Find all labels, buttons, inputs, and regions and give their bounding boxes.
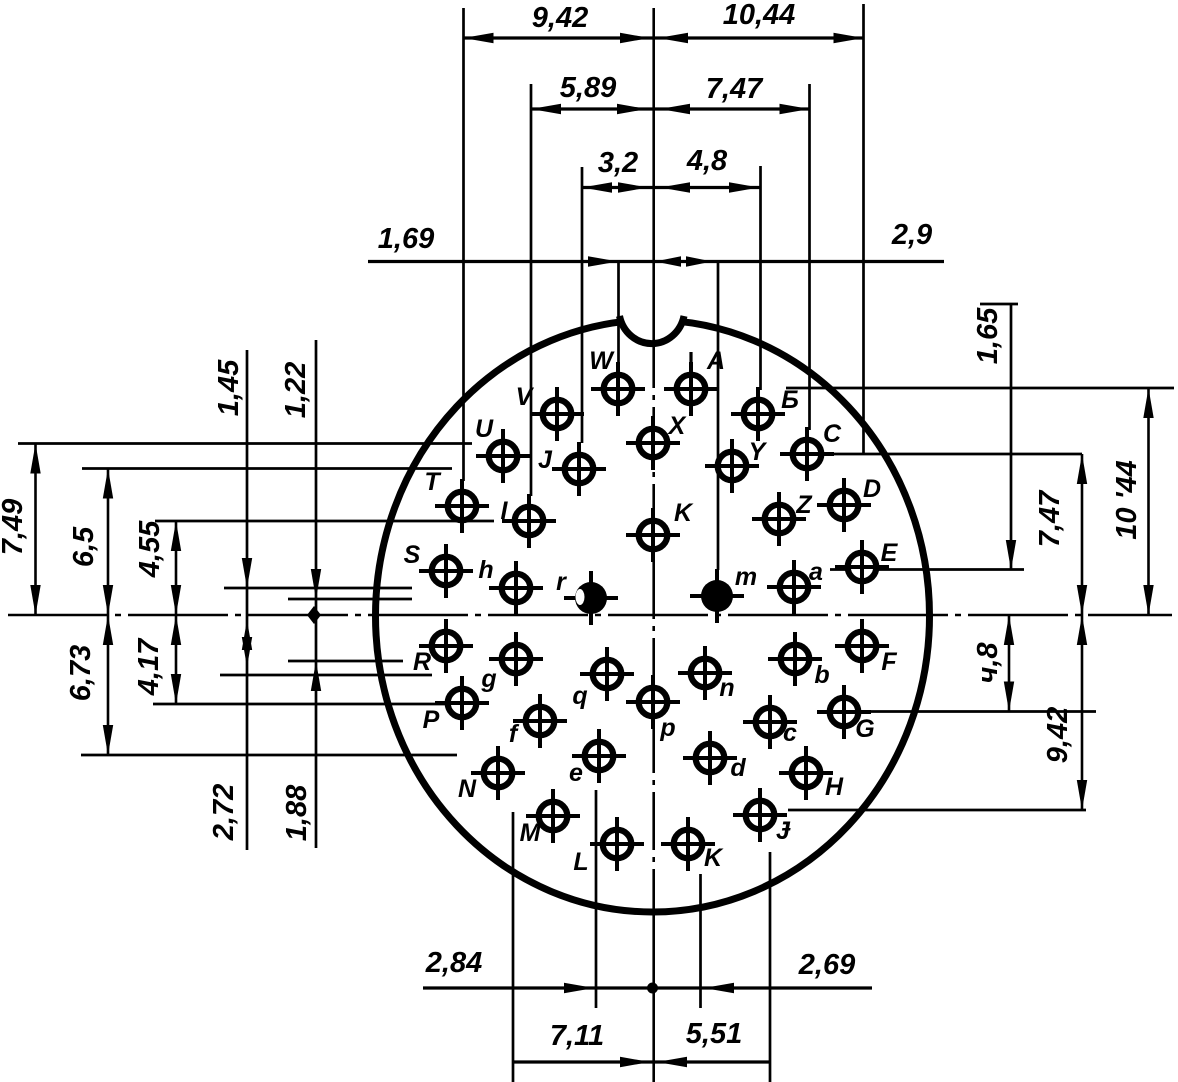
extension line row J [82, 467, 452, 470]
pin R [432, 632, 461, 661]
dim 6,73 [107, 615, 110, 755]
extension line col c bottom [769, 852, 772, 1082]
svg-text:10,44: 10,44 [723, 0, 796, 31]
svg-text:S: S [404, 541, 421, 569]
extension line row P [153, 703, 448, 706]
pin D [830, 491, 859, 520]
svg-text:6,5: 6,5 [68, 526, 100, 567]
dim line 1,69 / 2,9 [368, 260, 944, 263]
pin G [830, 698, 859, 727]
extension line col h/g bottom [512, 812, 515, 1082]
extension line row q left [220, 674, 432, 677]
extension line row r upper [224, 587, 412, 590]
svg-text:E: E [881, 539, 899, 567]
extension line row I [155, 520, 494, 523]
dim 4,55 [175, 521, 178, 615]
svg-text:F: F [881, 648, 897, 676]
extension line col 7,47 right [808, 84, 811, 430]
svg-text:h: h [478, 556, 493, 584]
pin N [484, 759, 513, 788]
pin a [780, 573, 809, 602]
extension line row X (left top) [18, 442, 472, 445]
svg-text:1,69: 1,69 [378, 223, 434, 255]
dim 4,8 right [1008, 615, 1011, 712]
pin e [585, 742, 614, 771]
svg-text:7,49: 7,49 [0, 499, 29, 555]
pin r [575, 582, 607, 614]
dim 1,65 [1010, 304, 1013, 570]
svg-text:D: D [863, 475, 881, 503]
dim 7,49 [34, 444, 37, 616]
svg-text:Z: Z [795, 491, 813, 519]
extension line col m pin [717, 262, 720, 570]
horizontal centerline [8, 614, 1172, 617]
pin g [502, 645, 531, 674]
pin b [781, 645, 810, 674]
svg-text:3,2: 3,2 [598, 147, 638, 179]
svg-text:n: n [719, 674, 734, 702]
svg-text:V: V [516, 383, 535, 411]
extension line col n bottom [699, 874, 702, 1008]
svg-text:p: p [659, 714, 675, 742]
svg-text:K: K [704, 844, 724, 872]
extension line col W pin [617, 262, 620, 363]
svg-text:A: A [706, 347, 725, 375]
dim 1,22 / 1,88 column [315, 340, 318, 848]
svg-text:g: g [480, 665, 496, 693]
svg-text:H: H [825, 773, 844, 801]
dim 6,5 [107, 469, 110, 616]
pin d [696, 744, 725, 773]
pin Б [744, 400, 773, 429]
extension line row E right [830, 568, 1024, 571]
pin U [489, 442, 518, 471]
svg-text:Б: Б [781, 386, 799, 414]
pin m [701, 580, 733, 612]
svg-text:7,47: 7,47 [1034, 489, 1066, 547]
extension line col 5,89 left [530, 84, 533, 496]
svg-text:4,55: 4,55 [134, 520, 166, 578]
extension line row r lower [288, 598, 412, 601]
dim line 3,2 / 4,8 [582, 186, 761, 189]
svg-text:ч,8: ч,8 [972, 642, 1004, 684]
pin f [526, 707, 555, 736]
vertical centerline [652, 8, 655, 330]
dim line 5,89 / 7,47 [531, 107, 810, 110]
pin A [677, 375, 706, 404]
svg-text:2,72: 2,72 [208, 784, 240, 841]
extension line col 4,8 right [759, 166, 762, 390]
dim 4,17 [175, 615, 178, 704]
pin L [603, 830, 632, 859]
extension line row g left [288, 660, 403, 663]
pin F [848, 632, 877, 661]
svg-text:P: P [423, 706, 440, 734]
svg-text:2,9: 2,9 [891, 219, 932, 251]
connector body circle [376, 320, 930, 912]
svg-text:C: C [823, 420, 842, 448]
pin V [543, 400, 572, 429]
pin A top stub [689, 352, 692, 372]
svg-text:q: q [572, 682, 587, 710]
svg-text:m: m [735, 563, 757, 591]
svg-text:X: X [667, 412, 687, 440]
pin W [604, 375, 633, 404]
pin Ɉ [746, 801, 775, 830]
svg-text:1,45: 1,45 [213, 359, 245, 416]
svg-text:W: W [589, 347, 615, 375]
extension line row G right [820, 710, 1096, 713]
keyway notch [621, 306, 682, 332]
pin S [432, 557, 461, 586]
extension line row C right [826, 453, 1082, 456]
pin T [448, 492, 477, 521]
svg-text:Ɉ: Ɉ [776, 817, 791, 845]
svg-text:9,42: 9,42 [532, 2, 588, 34]
pin K [639, 521, 668, 550]
tick for 1,65 [980, 303, 1018, 306]
dim 10,44 right [1147, 388, 1150, 615]
diamond node [307, 606, 321, 624]
dim line 2,84 / 2,69 [423, 986, 872, 989]
svg-text:a: a [809, 558, 823, 586]
extension line row e left [81, 754, 457, 757]
svg-text:7,11: 7,11 [550, 1020, 604, 1052]
svg-text:K: K [674, 499, 694, 527]
pin X [639, 429, 668, 458]
dim line 7,11 / 5,51 [513, 1060, 771, 1063]
svg-text:1,65: 1,65 [972, 307, 1004, 364]
pin c [756, 708, 785, 737]
dim line 9,42 / 10,44 [464, 36, 864, 39]
svg-text:6,73: 6,73 [65, 645, 97, 701]
svg-text:b: b [814, 661, 829, 689]
svg-text:M: M [520, 819, 542, 847]
pin h [502, 574, 531, 603]
svg-text:G: G [855, 715, 874, 743]
svg-text:1,22: 1,22 [280, 362, 312, 418]
extension line row A right [786, 387, 1174, 390]
dim 7,47 right / 9,42 right [1081, 454, 1084, 810]
svg-text:2,84: 2,84 [425, 947, 482, 979]
pin I [515, 507, 544, 536]
svg-text:5,89: 5,89 [560, 72, 616, 104]
pin Y [718, 452, 747, 481]
svg-text:e: e [569, 759, 583, 787]
extension line col 10,44 right [862, 4, 865, 455]
pin E [848, 553, 877, 582]
svg-text:2,69: 2,69 [798, 949, 855, 981]
pin K [674, 830, 703, 859]
svg-text:4,8: 4,8 [686, 145, 728, 177]
pin H [792, 759, 821, 788]
extension line col r/e bottom [595, 790, 598, 1008]
pin J [565, 455, 594, 484]
svg-text:7,47: 7,47 [706, 73, 764, 105]
node dot [647, 983, 658, 994]
pin q [593, 660, 622, 689]
extension line col 3,2 left [581, 167, 584, 443]
extension line col 9,42 left [462, 8, 465, 481]
svg-text:U: U [475, 415, 494, 443]
svg-text:9,42: 9,42 [1042, 707, 1074, 763]
pin n [691, 659, 720, 688]
dim 1,45 / 2,72 column [246, 350, 249, 850]
svg-text:J: J [538, 446, 553, 474]
svg-text:4,17: 4,17 [133, 637, 165, 696]
svg-text:r: r [556, 568, 567, 596]
svg-text:L: L [573, 848, 588, 876]
svg-text:10 '44: 10 '44 [1111, 460, 1143, 539]
svg-text:R: R [413, 648, 431, 676]
pin M [539, 802, 568, 831]
extension line row J lower right [788, 809, 1086, 812]
svg-text:1,88: 1,88 [281, 784, 313, 841]
svg-text:c: c [783, 719, 797, 747]
pin Z [765, 505, 794, 534]
svg-text:N: N [458, 775, 477, 803]
svg-text:5,51: 5,51 [686, 1018, 742, 1050]
pin p [639, 688, 668, 717]
svg-text:Y: Y [749, 438, 768, 466]
svg-text:d: d [730, 754, 746, 782]
svg-text:I: I [501, 497, 509, 525]
pin P [448, 689, 477, 718]
pin C [793, 440, 822, 469]
